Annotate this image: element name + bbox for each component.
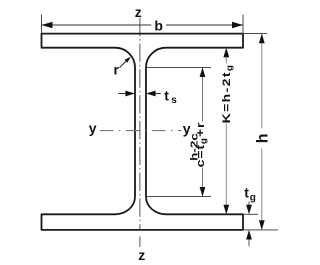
centerline z-z (vertical dash-dot) [139, 18, 141, 230]
tg arrow upper (pointing down) [248, 202, 250, 207]
svg-text:K=h-2tg: K=h-2tg [220, 64, 234, 124]
label c=tg+r (rotated, white mask over line) [194, 122, 208, 168]
axis y-y (horizontal dash-dot) [100, 130, 181, 132]
svg-text:z: z [135, 4, 142, 20]
label h (rotated, white mask over line) [255, 128, 272, 148]
h-2c arrowhead up [200, 67, 206, 77]
b dimension extension line right [242, 15, 244, 34]
h arrowhead up [259, 34, 265, 44]
svg-text:r: r [114, 62, 120, 78]
svg-text:z: z [138, 247, 145, 263]
h dimension line [261, 34, 263, 230]
h-2c dimension line [202, 67, 204, 196]
tg extension line (bottom flange top, right of beam) [244, 213, 258, 215]
b arrowhead left [42, 22, 53, 29]
label h-2c (rotated) [188, 133, 200, 161]
K arrowhead down [223, 205, 229, 215]
h extension line top [244, 33, 267, 35]
svg-text:t: t [164, 87, 169, 103]
svg-text:s: s [171, 95, 177, 106]
fillet extension line top (h-2c upper bound) [147, 66, 212, 68]
svg-text:g: g [250, 192, 256, 203]
K dimension line [225, 48, 227, 215]
ts arrow right [155, 93, 161, 95]
svg-text:b: b [154, 17, 163, 33]
label K=h-2tg (rotated, white mask over line) [220, 64, 234, 124]
h extension line bottom [244, 229, 278, 231]
svg-text:y: y [89, 120, 97, 136]
h arrowhead down [259, 220, 265, 230]
r leader arrow [120, 59, 129, 68]
I-beam outline [42, 34, 244, 230]
h-2c arrowhead down [200, 187, 206, 197]
svg-text:h-2c: h-2c [188, 133, 200, 161]
fillet extension line bottom (h-2c lower bound) [147, 196, 212, 198]
svg-text:h: h [255, 134, 272, 144]
K arrowhead up [223, 48, 229, 58]
b dimension extension line left [41, 15, 43, 34]
tg arrow lower (pointing up) [248, 239, 250, 246]
b arrowhead right [232, 22, 243, 29]
svg-text:t: t [244, 185, 249, 201]
ts arrow left [118, 93, 127, 95]
b dimension line [42, 24, 152, 26]
